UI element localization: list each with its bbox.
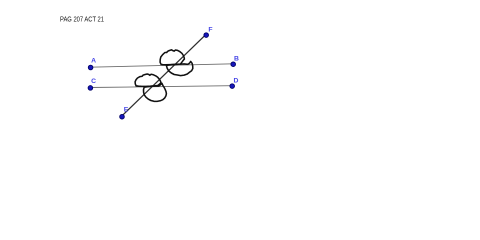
svg-text:C: C [91, 78, 96, 85]
scribble lower-right blob at AB intersection [166, 61, 192, 75]
wire transversal EF [122, 35, 206, 117]
scribble lower-right blob at CD intersection [144, 83, 167, 101]
point B [231, 62, 236, 67]
svg-text:PAG 207 ACT 21: PAG 207 ACT 21 [60, 16, 104, 23]
scribble upper-left blob at CD intersection [135, 74, 161, 86]
point F [204, 33, 209, 38]
point C [88, 86, 93, 91]
point D [230, 84, 235, 89]
svg-text:E: E [124, 107, 129, 114]
point A [88, 65, 93, 70]
point E [120, 114, 125, 119]
svg-text:B: B [234, 55, 239, 62]
scribble upper-left blob at AB intersection [160, 50, 184, 65]
wire segment AB [90, 64, 233, 67]
wire segment CD [90, 86, 232, 88]
svg-text:F: F [208, 26, 212, 33]
svg-text:A: A [91, 58, 96, 65]
svg-text:D: D [233, 78, 238, 85]
